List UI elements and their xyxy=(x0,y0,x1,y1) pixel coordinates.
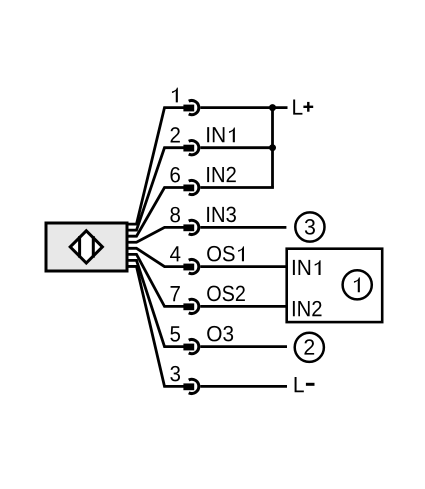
connector pin 2 xyxy=(183,141,198,155)
connector pin 4 xyxy=(183,260,198,274)
label OS1 xyxy=(207,246,244,262)
wire from sensor to pin 4 xyxy=(127,248,185,266)
connector pin 1 xyxy=(183,101,198,115)
box input label IN1 xyxy=(293,260,321,275)
pin number 7 xyxy=(171,286,180,301)
label OS2 xyxy=(207,286,245,302)
wire pin6 to L+ bus xyxy=(200,186,274,189)
circled terminal 2 xyxy=(295,333,324,362)
wire OS2 to unit xyxy=(200,305,285,308)
pin number 6 xyxy=(170,167,179,183)
wire from sensor to pin 7 xyxy=(127,254,185,306)
wire OS1 to unit xyxy=(200,265,285,268)
net label L- xyxy=(295,377,315,392)
wire IN3 to terminal 3 xyxy=(200,226,286,229)
junction dot bus / pin 2 xyxy=(269,144,276,151)
box input label IN2 xyxy=(293,301,322,316)
label O3 xyxy=(207,326,233,342)
net label L+ xyxy=(293,99,313,114)
evaluation unit box xyxy=(287,249,383,322)
circled terminal 3 xyxy=(295,212,324,241)
pin number 1 xyxy=(172,88,178,103)
wire from sensor to pin 1 xyxy=(127,108,185,225)
pin number 3 xyxy=(170,366,180,382)
circled terminal 1 inside box xyxy=(343,270,372,299)
connector pin 5 xyxy=(183,340,198,354)
sensor lens diamond symbol xyxy=(70,231,102,263)
pin number 4 xyxy=(170,246,180,261)
wire L+ xyxy=(200,106,287,109)
junction dot L+ / pin 1 xyxy=(269,104,276,111)
wire O3 to terminal 2 xyxy=(200,345,287,348)
label IN1 xyxy=(207,127,235,142)
wire from sensor to pin 8 xyxy=(127,227,185,242)
wire from sensor to pin 2 xyxy=(127,148,185,230)
wire pin2 to L+ bus xyxy=(200,146,274,149)
connector pin 3 xyxy=(183,379,198,393)
pin number 8 xyxy=(170,207,180,223)
wire from sensor to pin 5 xyxy=(127,260,185,346)
connector pin 6 xyxy=(183,180,198,194)
wire from sensor to pin 3 xyxy=(127,266,185,386)
pin number 5 xyxy=(170,326,180,341)
connector pin 8 xyxy=(183,220,198,234)
L+ bus vertical wire xyxy=(271,108,274,188)
label IN2 xyxy=(207,167,236,182)
connector pin 7 xyxy=(183,299,198,313)
wire L- xyxy=(200,385,287,388)
label IN3 xyxy=(207,207,236,223)
pin number 2 xyxy=(171,127,180,142)
photoelectric sensor body xyxy=(46,223,127,271)
wire from sensor to pin 6 xyxy=(127,188,185,237)
